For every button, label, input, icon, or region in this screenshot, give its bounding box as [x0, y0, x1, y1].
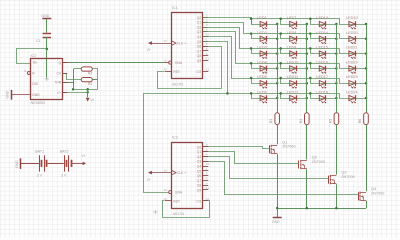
- ground GND at IC2 GND pin: [12, 94, 31, 96]
- svg-text:V+: V+: [147, 178, 151, 182]
- wire R1 left leg: [74, 68, 82, 70]
- counter IC3 4017N body: [172, 143, 203, 209]
- wire feed drop column 4 row 1: [340, 19, 367, 25]
- svg-text:LED6: LED6: [257, 91, 267, 95]
- wire feed drop column 4 row 5: [340, 79, 367, 84]
- wire R6 to Q4 drain: [366, 125, 368, 192]
- LED LED13: [319, 21, 325, 26]
- svg-text:Q: Q: [59, 61, 62, 65]
- svg-text:R1: R1: [88, 72, 92, 76]
- svg-text:14: 14: [163, 39, 167, 43]
- wire IC2 THR to vertical: [63, 82, 73, 84]
- svg-text:Q3: Q3: [197, 30, 202, 34]
- svg-text:R3: R3: [269, 119, 273, 123]
- wire IC3 RST to CO reset loop: [165, 200, 172, 202]
- svg-text:V+: V+: [57, 91, 61, 95]
- svg-text:Q4: Q4: [197, 164, 202, 168]
- LED LED5: [260, 81, 266, 86]
- svg-text:CLK +: CLK +: [177, 42, 186, 46]
- origin cross 555: [45, 77, 49, 81]
- LED LED12: [290, 95, 296, 100]
- LED LED16: [319, 66, 325, 71]
- svg-text:Q4: Q4: [371, 187, 376, 191]
- wire feed drop column 2 row 5: [281, 79, 307, 84]
- wire R4 to Q2 drain: [306, 125, 308, 160]
- supply V- arrow below node C: [87, 89, 89, 97]
- svg-text:LED7: LED7: [287, 16, 297, 20]
- svg-text:Q7: Q7: [197, 49, 202, 53]
- svg-text:Q5: Q5: [197, 169, 202, 173]
- node bus4 row 5: [365, 82, 368, 85]
- node bus4 row 1: [365, 23, 368, 26]
- LED LED1: [260, 21, 266, 26]
- wire R5 to Q3 drain: [336, 125, 338, 175]
- svg-text:LED19: LED19: [346, 16, 358, 20]
- wire IC3 Q0 to Q1 gate: [203, 147, 270, 149]
- svg-text:CO: CO: [196, 199, 201, 203]
- svg-text:Q9: Q9: [197, 59, 202, 63]
- resistor R1: [81, 67, 92, 71]
- svg-text:LED20: LED20: [346, 31, 358, 35]
- svg-text:LED14: LED14: [316, 31, 328, 35]
- IC2 pin R inverting bubble, pin 4: [27, 72, 30, 75]
- wire feed drop column 1 row 6: [252, 94, 278, 99]
- node bus3 row 2: [335, 38, 338, 41]
- wire row feed 1: [251, 18, 340, 20]
- wire feed drop column 3 row 3: [311, 49, 337, 54]
- node bus4 row 3: [365, 52, 368, 55]
- IC1 pin numbers: [163, 14, 209, 72]
- svg-text:LED22: LED22: [346, 60, 358, 64]
- node bus4 row 4: [365, 67, 368, 70]
- svg-text:Q0: Q0: [197, 16, 202, 20]
- LED LED24: [349, 95, 355, 100]
- node bus3 row 4: [335, 67, 338, 70]
- LED LED8: [290, 36, 296, 41]
- transistor Q2 2N7000: [298, 161, 300, 169]
- svg-text:LED15: LED15: [316, 46, 328, 50]
- svg-text:GND: GND: [32, 93, 40, 97]
- node bus2 row 6: [306, 97, 309, 100]
- LED LED14: [319, 36, 325, 41]
- wire Q2 source to ground rail: [306, 169, 308, 208]
- feed junction dots: [250, 18, 312, 95]
- node A junction: [46, 48, 49, 51]
- svg-text:Q2: Q2: [312, 156, 317, 160]
- svg-text:LED16: LED16: [316, 60, 328, 64]
- wire C1 to node A: [46, 37, 48, 49]
- wire IC1 RST to Q6 reset loop: [165, 71, 172, 73]
- capacitor C1: [43, 33, 51, 35]
- svg-text:Q3: Q3: [197, 160, 202, 164]
- wire IC2 CV to R2: [63, 74, 82, 80]
- svg-text:BAT2: BAT2: [60, 150, 69, 154]
- svg-text:Q8: Q8: [197, 184, 202, 188]
- svg-text:DIS: DIS: [32, 82, 38, 86]
- battery BAT2: [64, 155, 66, 171]
- svg-text:LED17: LED17: [316, 75, 328, 79]
- svg-text:12: 12: [206, 68, 210, 72]
- wire IC3 Q1 to Q2 gate: [203, 152, 299, 164]
- op-amp timer IC2 NE555N body: [31, 59, 63, 100]
- transistor Q4 2N7000: [358, 192, 360, 200]
- wire feed drop column 1 row 1: [252, 19, 278, 25]
- svg-text:LED23: LED23: [346, 75, 358, 79]
- supply V+ arrow at IC3 CLK pin 14: [152, 172, 172, 174]
- svg-text:RST: RST: [173, 70, 180, 74]
- svg-text:4017N: 4017N: [173, 212, 184, 216]
- node bus1 row 6: [276, 97, 279, 100]
- LED LED23: [349, 81, 355, 86]
- wire feed drop column 2 row 4: [281, 64, 307, 69]
- battery BAT1: [39, 155, 41, 171]
- svg-text:R6: R6: [358, 119, 362, 123]
- svg-text:Q1: Q1: [197, 21, 202, 25]
- LED LED11: [290, 81, 296, 86]
- wire R3 to Q1 drain: [277, 125, 279, 145]
- node feed6 junction: [226, 92, 229, 95]
- svg-text:3 V: 3 V: [37, 173, 43, 177]
- svg-text:NE555N: NE555N: [31, 101, 46, 105]
- ground GND at battery minus: [20, 158, 22, 169]
- transistor Q3 2N7000: [328, 176, 330, 184]
- svg-text:C1: C1: [36, 39, 41, 43]
- LED LED18: [319, 95, 325, 100]
- LED LED3: [260, 51, 266, 56]
- svg-text:GND: GND: [6, 90, 10, 98]
- wire IC1 Q0 to row 1 anode line: [203, 18, 252, 25]
- wire feed drop column 3 row 5: [311, 79, 337, 84]
- wire feed drop column 1 row 4: [252, 64, 278, 69]
- wire feed drop column 4 row 2: [340, 34, 367, 39]
- IC3 output pin stubs: [203, 146, 208, 148]
- wire feed drop column 2 row 2: [281, 34, 307, 39]
- LED LED19: [349, 21, 355, 26]
- svg-text:LED9: LED9: [287, 46, 297, 50]
- node bus2 row 1: [306, 23, 309, 26]
- node C junction: [86, 88, 89, 91]
- svg-text:GND: GND: [15, 160, 19, 168]
- IC3 ENA inverting bubble: [169, 191, 172, 194]
- svg-text:Q6: Q6: [197, 45, 202, 49]
- LED LED9: [290, 51, 296, 56]
- supply V+ arrow at IC1 CLK pin 14: [152, 43, 172, 45]
- svg-text:V+: V+: [147, 48, 151, 52]
- svg-text:IC1: IC1: [172, 6, 178, 10]
- wire feed drop column 2 row 6: [281, 94, 307, 99]
- wire feed drop column 1 row 2: [252, 34, 278, 39]
- node rail junctions: [276, 207, 338, 210]
- wire R1 R2 right legs to bottom rail: [74, 69, 98, 90]
- wire feed drop column 4 row 6: [340, 94, 367, 99]
- wire feed drop column 3 row 4: [311, 64, 337, 69]
- svg-text:13: 13: [163, 188, 167, 192]
- svg-text:LED4: LED4: [257, 60, 267, 64]
- svg-text:IC2: IC2: [31, 54, 37, 58]
- wire feed drop column 2 row 1: [281, 19, 307, 25]
- LED LED4: [260, 66, 266, 71]
- svg-text:Q1: Q1: [282, 140, 287, 144]
- origin cross IC3: [153, 210, 157, 214]
- svg-text:Q6: Q6: [197, 174, 202, 178]
- svg-text:4017N: 4017N: [172, 83, 183, 87]
- svg-text:Q3: Q3: [341, 171, 346, 175]
- wire ground rail: [277, 208, 366, 210]
- svg-text:LED13: LED13: [316, 16, 328, 20]
- counter IC1 4017N body: [172, 13, 203, 79]
- node bus1 row 2: [276, 38, 279, 41]
- wire GND bar to C1: [46, 19, 48, 33]
- svg-text:ENA: ENA: [175, 191, 183, 195]
- svg-text:LED12: LED12: [287, 91, 299, 95]
- IC2 pin names: [32, 61, 62, 97]
- LED LED7: [290, 21, 296, 26]
- svg-text:R4: R4: [299, 119, 303, 123]
- svg-text:2N7000: 2N7000: [341, 175, 354, 179]
- node D junction: [86, 91, 89, 94]
- wire feed drop column 3 row 6: [311, 94, 337, 99]
- svg-text:Q0: Q0: [197, 145, 202, 149]
- svg-text:LED11: LED11: [287, 75, 298, 79]
- LED LED10: [290, 66, 296, 71]
- node bus4 row 2: [365, 38, 368, 41]
- LED LED2: [260, 36, 266, 41]
- IC1 output pin stubs: [203, 17, 208, 19]
- wire IC3 Q2 to Q3 gate: [203, 157, 329, 179]
- node bus1 row 5: [276, 82, 279, 85]
- node bus2 row 5: [306, 82, 309, 85]
- wire feed drop column 2 row 3: [281, 49, 307, 54]
- svg-text:LED21: LED21: [346, 46, 358, 50]
- LED LED15: [319, 51, 325, 56]
- svg-text:15: 15: [163, 68, 167, 72]
- svg-text:TR: TR: [32, 61, 37, 65]
- LED LED6: [260, 95, 266, 100]
- svg-text:Q4: Q4: [197, 35, 202, 39]
- IC3 pin names: [172, 145, 202, 203]
- svg-text:LED5: LED5: [257, 75, 267, 79]
- LED LED21: [349, 51, 355, 56]
- svg-text:IC3: IC3: [172, 135, 178, 139]
- resistor R3: [275, 113, 280, 125]
- svg-text:4: 4: [24, 69, 26, 73]
- svg-text:11: 11: [206, 57, 209, 61]
- svg-text:2N7000: 2N7000: [371, 192, 384, 196]
- svg-text:LED10: LED10: [287, 60, 299, 64]
- wire feed drop column 1 row 3: [252, 49, 278, 54]
- wire IC1 Q1 to row feed 2: [203, 23, 340, 34]
- svg-text:CLK +: CLK +: [177, 171, 186, 175]
- wire R1/THR vertical: [73, 69, 75, 89]
- wire IC3 Q3 to Q4 gate: [203, 162, 359, 195]
- wire node A to TR pin of IC2: [17, 49, 47, 64]
- wire feed drop column 3 row 1: [311, 19, 337, 25]
- wire Q4 source to ground rail: [366, 201, 368, 208]
- node bus3 row 5: [335, 82, 338, 85]
- transistor Q1 2N7000: [269, 145, 271, 153]
- svg-text:3 V: 3 V: [61, 173, 67, 177]
- svg-text:R2: R2: [88, 82, 92, 86]
- svg-text:V+: V+: [90, 98, 94, 102]
- svg-text:BAT1: BAT1: [35, 150, 44, 154]
- node bus1 row 4: [276, 67, 279, 70]
- wire BAT1 to BAT2: [47, 163, 64, 165]
- svg-text:LED1: LED1: [257, 16, 267, 20]
- wire IC1 Q4 to row feed 5: [203, 37, 340, 79]
- wire IC1 Q5 to row feed 6: [203, 42, 340, 94]
- node bus3 row 1: [335, 23, 338, 26]
- node B junction: [72, 88, 75, 91]
- wire BAT2 to V+ supply: [72, 163, 83, 165]
- svg-text:Q7: Q7: [197, 179, 202, 183]
- LED LED22: [349, 66, 355, 71]
- node bus4 row 6: [365, 97, 368, 100]
- IC3 pin numbers: [163, 143, 209, 201]
- supply V+ arrow at battery: [83, 162, 86, 166]
- svg-text:Q2: Q2: [197, 25, 202, 29]
- svg-text:V+: V+: [81, 154, 85, 158]
- svg-text:ENA: ENA: [175, 61, 183, 65]
- wire GND to BAT1: [21, 163, 39, 165]
- node bus1 row 1: [276, 23, 279, 26]
- svg-text:GND: GND: [272, 220, 280, 224]
- resistor R6: [364, 113, 369, 125]
- wire Q3 source to ground rail: [336, 184, 338, 208]
- svg-text:LED3: LED3: [257, 46, 267, 50]
- svg-text:RST: RST: [173, 199, 180, 203]
- svg-text:CV: CV: [56, 72, 61, 76]
- svg-text:LED2: LED2: [257, 31, 267, 35]
- svg-text:GND: GND: [41, 14, 49, 18]
- svg-text:10: 10: [206, 162, 210, 166]
- resistor R4: [305, 113, 310, 125]
- wire node A down to 555 V+ area: [46, 49, 48, 79]
- node bus3 row 3: [335, 52, 338, 55]
- svg-text:LED8: LED8: [287, 31, 297, 35]
- node bus3 row 6: [335, 97, 338, 100]
- svg-text:Q1: Q1: [197, 150, 202, 154]
- svg-text:CO: CO: [196, 70, 201, 74]
- wire Q1 source to ground rail: [277, 154, 279, 208]
- svg-text:Q9: Q9: [197, 188, 202, 192]
- ground GND at rail: [277, 208, 279, 217]
- wire feed drop column 4 row 3: [340, 49, 367, 54]
- LED LED20: [349, 36, 355, 41]
- resistor R2: [81, 78, 92, 82]
- wire row feed 6 to IC3 ENA: [144, 94, 228, 193]
- svg-text:Q2: Q2: [197, 155, 202, 159]
- wire IC2 Q output to IC1 ENA: [63, 62, 165, 64]
- wire feed drop column 4 row 4: [340, 64, 367, 69]
- svg-text:2N7000: 2N7000: [312, 160, 325, 164]
- wire IC1 Q2 to row feed 3: [203, 28, 340, 49]
- node bus2 row 4: [306, 67, 309, 70]
- svg-text:R5: R5: [328, 119, 332, 123]
- wire IC2 V+ pin to supply node: [63, 92, 88, 94]
- wire feed drop column 1 row 5: [252, 79, 278, 84]
- IC1 pin names: [172, 16, 202, 74]
- node bus1 row 3: [276, 52, 279, 55]
- svg-text:Q5: Q5: [197, 40, 202, 44]
- wire feed drop column 3 row 2: [311, 34, 337, 39]
- svg-text:Q8: Q8: [197, 54, 202, 58]
- svg-text:LED18: LED18: [316, 91, 328, 95]
- resistor R5: [334, 113, 339, 125]
- svg-text:THR: THR: [54, 81, 62, 85]
- wire cathode buses: [278, 24, 367, 113]
- node bus2 row 3: [306, 52, 309, 55]
- IC1 ENA inverting bubble: [169, 61, 172, 64]
- wire IC1 Q3 to row feed 4: [203, 32, 340, 64]
- svg-text:LED24: LED24: [346, 91, 358, 95]
- IC2 right pin stubs: [63, 62, 67, 64]
- node bus2 row 2: [306, 38, 309, 41]
- LED LED17: [319, 81, 325, 86]
- svg-text:2N7000: 2N7000: [282, 145, 295, 149]
